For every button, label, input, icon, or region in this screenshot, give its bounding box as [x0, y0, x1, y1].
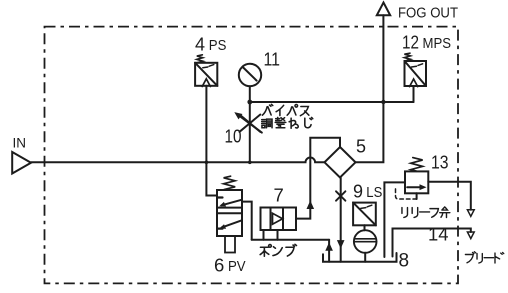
wire: relief feed from tank riser	[384, 182, 405, 257]
pressure switch 12 MPS body	[405, 61, 427, 86]
wire: relief outlet to bleed	[428, 182, 471, 210]
label 6 PV	[214, 255, 246, 276]
wire: gauge / needle-valve vertical x=249.8	[249, 86, 251, 162]
wire: 12 MPS stem	[413, 86, 415, 102]
9 LS float stem	[364, 225, 366, 230]
svg-text:MPS: MPS	[423, 36, 452, 52]
pump 7 body	[261, 208, 297, 231]
9 LS contact marks	[361, 205, 372, 208]
9 LS float level lines	[354, 239, 377, 242]
bleed arrow 2 (open, down)	[467, 232, 474, 239]
junction dot at 6PV branch	[205, 161, 209, 165]
pump 7 dividers	[271, 208, 284, 231]
4 PS spring top	[197, 55, 203, 63]
label 7	[274, 185, 284, 206]
IN port triangle	[12, 152, 31, 174]
enclosure dash-dot border	[45, 27, 459, 284]
label リリーフ弁	[402, 207, 450, 218]
wire: pump bottom header y=239.8	[252, 239, 329, 241]
9 LS float chamber	[354, 230, 377, 253]
flow arrow up on pump discharge	[307, 201, 315, 210]
svg-text:12: 12	[402, 33, 419, 53]
svg-text:6: 6	[214, 255, 224, 276]
svg-text:9: 9	[353, 182, 363, 202]
relief valve spring	[411, 158, 423, 172]
label FOG OUT	[398, 6, 458, 22]
filter 5 diamond	[325, 147, 356, 178]
9 LS bottom stem	[364, 253, 366, 262]
6 PV port ticks	[218, 198, 223, 229]
relief valve bottom stub	[416, 193, 418, 199]
pump 7 triangle	[273, 213, 283, 224]
svg-text:4: 4	[195, 35, 205, 55]
wire: filter bypass loop (pump discharge)	[296, 138, 340, 219]
FOG OUT triangle	[377, 3, 390, 16]
svg-text:14: 14	[428, 224, 449, 245]
drain shutoff X	[336, 191, 345, 200]
12 MPS bottom arrow (open, pointing up)	[410, 79, 418, 87]
4 PS contact marks	[203, 65, 214, 68]
tank line 8	[323, 253, 397, 262]
junction dot at needle-valve branch	[248, 161, 252, 165]
svg-text:7: 7	[274, 185, 284, 206]
bleed arrow 1 (open, down)	[467, 210, 474, 217]
svg-text:PS: PS	[209, 38, 227, 54]
wire: main supply line y=162.3 with hop over bypass line at x=310	[31, 157, 325, 162]
needle valve 10 (bypass adjust) crossing strokes	[240, 115, 261, 132]
svg-text:13: 13	[431, 153, 449, 173]
wire: line 14 from tank to bleed	[393, 229, 471, 257]
6 PV section dividers	[217, 208, 242, 214]
wire: filter drain line	[340, 178, 342, 262]
label 13	[431, 153, 449, 173]
wire: 6 PV outlet to pump suction header	[242, 202, 252, 240]
4 PS bottom arrow (open, pointing up)	[202, 79, 210, 87]
6 PV bottom path arrow	[222, 220, 242, 227]
6 PV bottom plunger	[225, 236, 235, 253]
label IN	[13, 136, 27, 151]
label ポンプ	[260, 244, 296, 256]
wire: filter outlet to fog riser	[356, 15, 384, 162]
junction dot at gauge branch	[247, 100, 252, 105]
svg-text:LS: LS	[366, 185, 382, 201]
label 9 LS	[353, 182, 382, 202]
relief valve arrow inside	[407, 186, 423, 188]
svg-text:IN: IN	[13, 136, 27, 151]
label 8	[399, 251, 410, 272]
needle valve 10 adjustment arrow	[239, 115, 262, 132]
label ブリード	[465, 252, 503, 263]
12 MPS spring top	[404, 53, 410, 61]
label 調整ねじ	[262, 117, 313, 128]
6 PV top path arrow	[222, 200, 242, 206]
junction dot at fog-line cross	[381, 100, 385, 104]
label 14	[428, 224, 449, 245]
flow arrow up on suction	[325, 242, 333, 251]
relief valve 13 body	[405, 171, 428, 193]
12 MPS contact marks	[412, 64, 423, 67]
pressure switch 4 PS body	[195, 63, 217, 86]
label バイパス	[262, 104, 308, 115]
svg-text:8: 8	[399, 251, 410, 272]
label 4 PS	[195, 35, 226, 55]
wire: pump bottom ports	[264, 230, 278, 240]
label 10	[225, 127, 242, 147]
svg-text:11: 11	[264, 50, 281, 70]
wire: pilot header y=102 from gauge line to 12MPS	[250, 101, 414, 103]
flow arrow down on drain	[337, 240, 345, 249]
relief valve pilot dashed line	[396, 189, 417, 200]
label 11	[264, 50, 281, 70]
svg-text:PV: PV	[228, 259, 246, 275]
gauge 11 needle	[243, 68, 256, 81]
svg-text:5: 5	[356, 137, 366, 157]
gauge 11 circle	[239, 64, 261, 86]
wire: pump suction drop to tank line	[328, 240, 330, 262]
valve 6 PV body	[217, 190, 242, 236]
level switch 9 LS body	[353, 203, 376, 226]
label 12 MPS	[402, 33, 451, 53]
6 PV spring top	[224, 176, 236, 189]
label 5	[356, 137, 366, 157]
wire: 4PS / 6PV branch vertical x=206.4	[206, 86, 217, 196]
svg-text:FOG OUT: FOG OUT	[398, 6, 458, 22]
svg-text:10: 10	[225, 127, 242, 147]
